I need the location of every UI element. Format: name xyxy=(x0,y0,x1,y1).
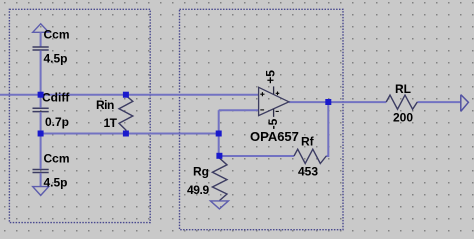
svg-text:0.7p: 0.7p xyxy=(45,115,69,129)
wire: Rf right end riser x=328.3 xyxy=(326,102,328,156)
junction node at Rin top xyxy=(123,92,129,98)
capacitor Cdiff plates xyxy=(33,108,49,111)
ground below Rg xyxy=(210,201,228,209)
op-amp + input mark xyxy=(260,92,264,96)
op-amp positive supply pin xyxy=(273,86,275,94)
wire: Ccm bottom plate to ground xyxy=(40,173,42,187)
svg-text:1T: 1T xyxy=(104,116,118,130)
svg-text:-5: -5 xyxy=(266,118,280,129)
junction node lower rail / Rg column xyxy=(216,131,222,137)
wire: lower rail y=133.5 from Cdiff column to Rg column xyxy=(40,133,219,135)
svg-text:4.5p: 4.5p xyxy=(44,52,68,66)
wire: Ccm top plate to main rail junction xyxy=(40,50,42,94)
ground (top, flipped) above Ccm top xyxy=(33,24,49,33)
wire: Cdiff bottom plate to lower rail xyxy=(40,112,42,134)
resistor RL (horizontal zigzag) xyxy=(386,95,417,109)
svg-text:49.9: 49.9 xyxy=(187,183,209,197)
junction node at Ccm-top / main rail xyxy=(38,92,44,98)
resistor Rg (vertical zigzag) xyxy=(212,157,227,201)
op-amp negative supply pin xyxy=(273,109,275,117)
selection box 2 (amplifier) xyxy=(180,9,344,229)
capacitor Ccm (bottom) plates xyxy=(33,170,49,173)
junction node at Rin bottom xyxy=(123,131,129,137)
junction node at Cdiff bottom / lower rail xyxy=(38,131,44,137)
op-amp - input mark xyxy=(260,109,264,111)
wire: main input rail y=94.7 from left edge to op-amp + input xyxy=(0,94,259,96)
svg-text:Rf: Rf xyxy=(301,135,315,149)
svg-text:Rin: Rin xyxy=(96,98,114,112)
svg-text:Rg: Rg xyxy=(193,165,209,179)
wire: stem ground to Ccm top plate xyxy=(40,32,42,46)
junction node output / Rf riser xyxy=(325,99,331,105)
op-amp U1 OPA657 triangle xyxy=(259,87,289,115)
wire: lower rail to Ccm bottom top plate xyxy=(40,134,42,170)
svg-text:Ccm: Ccm xyxy=(44,28,70,42)
svg-text:200: 200 xyxy=(393,111,413,125)
op-amp supply - mark xyxy=(276,110,279,112)
resistor Rf (horizontal zigzag) xyxy=(294,149,326,163)
selection box 1 (left network) xyxy=(9,9,150,222)
svg-text:4.5p: 4.5p xyxy=(44,176,68,190)
capacitor Ccm (top) plates xyxy=(33,47,49,50)
svg-text:RL: RL xyxy=(395,82,411,96)
wire: vertical Rg column x=218.7 xyxy=(218,110,220,156)
svg-text:453: 453 xyxy=(298,165,318,179)
junction node Rg top / Rf wire xyxy=(216,153,222,159)
wire: junction to Cdiff top plate xyxy=(40,95,42,108)
op-amp supply + mark xyxy=(276,92,280,96)
svg-text:OPA657: OPA657 xyxy=(250,129,299,144)
wire: Rg node to Rf left y=156 xyxy=(219,155,294,157)
svg-text:Ccm: Ccm xyxy=(44,152,70,166)
wire: inverting input horizontal y=110.2 xyxy=(219,109,259,111)
wire: RL to output arrow xyxy=(417,101,461,103)
resistor Rin (vertical zigzag) xyxy=(119,96,133,134)
svg-text:+5: +5 xyxy=(264,70,278,84)
output arrow / port xyxy=(461,95,469,112)
svg-text:Cdiff: Cdiff xyxy=(42,91,70,105)
ground (bottom left) below Ccm bottom xyxy=(33,187,49,196)
wire: output rail y=102 op-amp tip to RL xyxy=(289,101,386,103)
